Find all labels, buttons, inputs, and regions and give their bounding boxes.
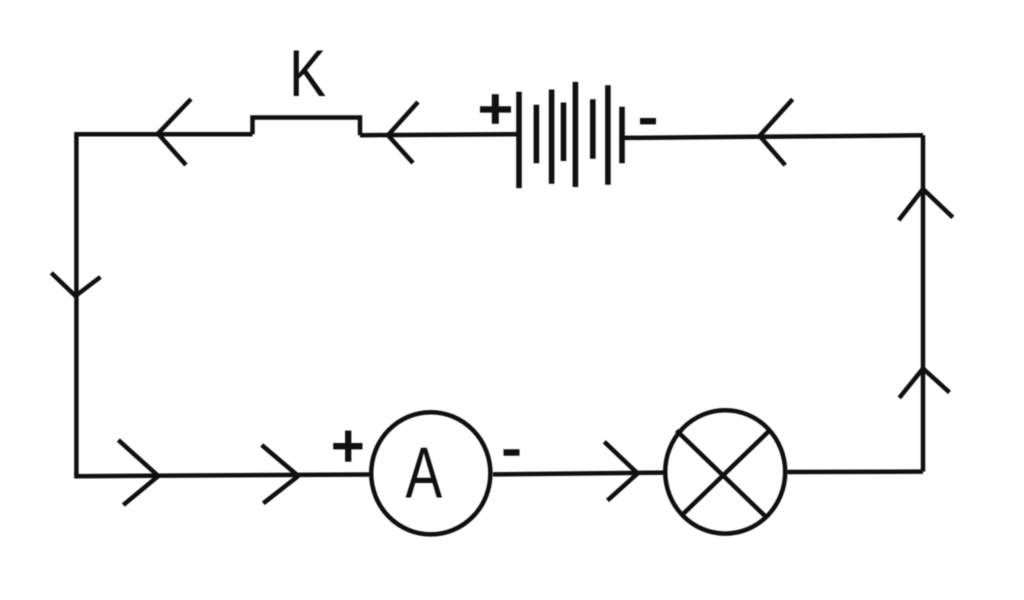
lamp L1 cross line 2 bbox=[682, 431, 770, 516]
svg-text:K: K bbox=[289, 36, 326, 110]
ammeter plus label bbox=[333, 431, 362, 462]
battery B1 plate 3 tall bbox=[549, 90, 555, 184]
ammeter minus label bbox=[504, 449, 520, 456]
wire switch to battery bbox=[360, 134, 519, 135]
arrow bottom-left pointing right bbox=[118, 440, 158, 505]
arrow top-left pointing left bbox=[158, 99, 191, 165]
arrow right wire upper pointing up bbox=[899, 189, 953, 220]
wire left vertical bbox=[74, 134, 79, 476]
lamp L1 circle bbox=[665, 410, 785, 533]
wire battery to top-right corner bbox=[624, 135, 923, 138]
wire top-left horizontal bbox=[74, 132, 252, 137]
battery B1 plate 7 tall bbox=[605, 85, 611, 185]
ammeter A1 circle bbox=[371, 412, 490, 534]
battery B1 plate 8 short bbox=[619, 107, 625, 163]
arrow left wire pointing down bbox=[51, 273, 100, 296]
wire bottom-right horizontal bbox=[788, 469, 924, 474]
battery B1 plate 2 short bbox=[534, 105, 540, 164]
arrow right wire lower pointing up bbox=[899, 369, 949, 398]
arrow top-right pointing left bbox=[760, 99, 793, 165]
wire ammeter to lamp bbox=[493, 473, 663, 475]
battery minus label bbox=[640, 118, 656, 124]
wire bottom-left horizontal bbox=[74, 475, 369, 477]
battery B1 plate 1 tall bbox=[516, 92, 522, 188]
battery plus label bbox=[480, 94, 511, 124]
switch K bbox=[253, 118, 361, 136]
battery B1 plate 5 tall bbox=[573, 82, 579, 187]
battery B1 plate 4 short bbox=[561, 103, 567, 162]
wire right vertical bbox=[921, 135, 926, 471]
lamp L1 cross line 1 bbox=[677, 431, 766, 517]
arrow top-middle pointing left bbox=[388, 102, 418, 163]
arrow bottom-middle pointing right bbox=[262, 445, 299, 503]
svg-text:A: A bbox=[406, 432, 443, 513]
arrow before lamp pointing right bbox=[604, 442, 637, 501]
battery B1 plate 6 short bbox=[590, 99, 596, 159]
